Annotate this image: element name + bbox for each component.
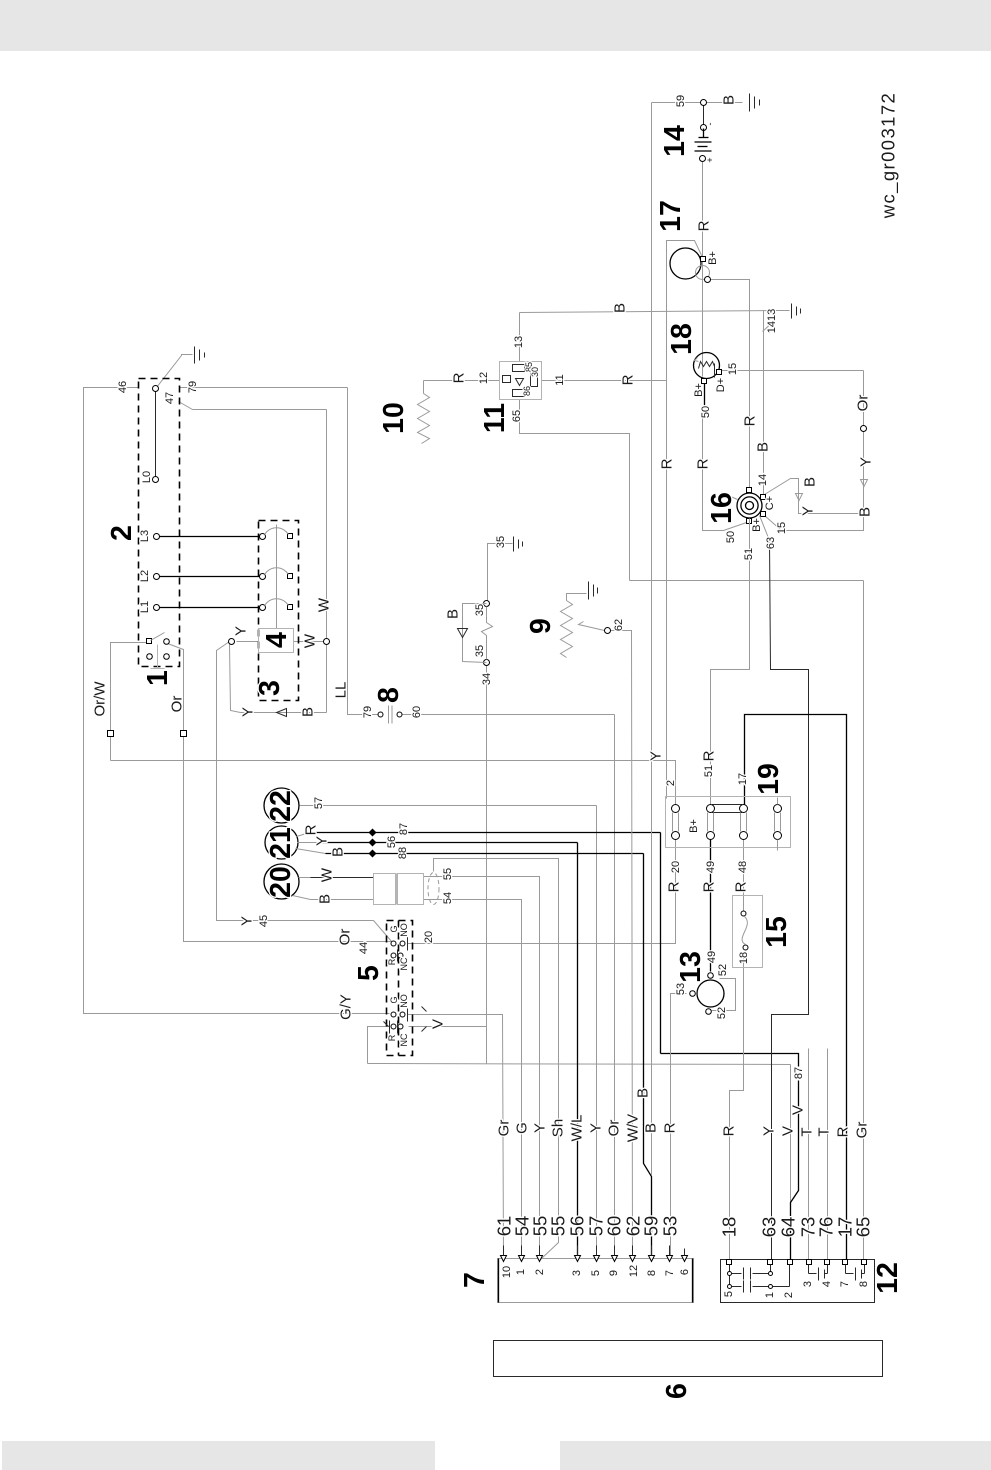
alternator 16 leader 63 [760, 516, 770, 541]
wire B to fuse 20 [311, 899, 374, 901]
wire Y long horizontal to terminal 2 of 19 [111, 761, 676, 805]
glow plug 4 right squares [288, 534, 293, 539]
fuse holder 20 right cell [398, 874, 424, 905]
relay 11 box [500, 362, 542, 400]
svg-text:65: 65 [853, 1217, 874, 1238]
node Y near glow plug 4 [229, 639, 235, 645]
wire 11 from relay to R bus [542, 380, 667, 382]
wire D+/15 of motor 18 [722, 370, 864, 372]
wire column 65/Gr to pin 8 [863, 581, 865, 1261]
wire 79 from switch 2 terminal [180, 387, 348, 389]
wire 62 from resistor 9 [611, 631, 633, 1260]
svg-text:18: 18 [666, 323, 698, 355]
alternator 16 terminal 15 [761, 512, 766, 517]
arrow on 14 wire [796, 494, 803, 501]
wire column 56/WL to pin 3 [577, 843, 579, 1260]
node Or square [181, 731, 187, 737]
svg-text:T: T [799, 1127, 816, 1136]
svg-text:4: 4 [821, 1281, 833, 1287]
motor 18 crank arrow [695, 358, 699, 362]
svg-text:LL: LL [333, 682, 350, 699]
relay 11 left pin bar [503, 376, 511, 383]
svg-text:48: 48 [737, 861, 749, 873]
resistor 9 ground [589, 582, 598, 600]
wire Or from component 1 down [168, 644, 392, 942]
wire switch 2 terminal to ground diagonal [157, 355, 193, 388]
svg-text:3: 3 [254, 680, 286, 696]
svg-text:R: R [701, 750, 718, 761]
wire column 73/T to pin 3 [808, 1049, 810, 1261]
wire 53 from motor 13 [671, 994, 687, 1260]
svg-text:Y: Y [233, 626, 250, 636]
svg-text:NO: NO [399, 994, 409, 1008]
svg-text:8: 8 [646, 1270, 658, 1276]
wire L1 row to glow plug [157, 607, 263, 609]
svg-text:B: B [802, 477, 819, 487]
footer grey bar right [560, 1441, 991, 1470]
svg-text:B: B [643, 1123, 660, 1133]
svg-text:B: B [612, 303, 629, 313]
svg-text:B: B [721, 95, 738, 105]
svg-text:8: 8 [858, 1281, 870, 1287]
svg-text:65: 65 [511, 410, 523, 422]
svg-text:Y: Y [240, 707, 257, 717]
svg-text:3: 3 [571, 1270, 583, 1276]
svg-text:B+: B+ [707, 251, 719, 265]
solenoid 13 terminal 49 [708, 973, 714, 979]
wire B/59 battery negative long bus [651, 103, 653, 1176]
svg-text:Y: Y [761, 1126, 778, 1136]
wire 55 from fuse [424, 877, 540, 1260]
switch 5 contact row NC upper [391, 950, 403, 962]
svg-text:22: 22 [265, 790, 297, 822]
wire 65 horizontal to Gr column [630, 580, 864, 582]
wire 14 from alternator [765, 479, 863, 514]
svg-text:wc_gr003172: wc_gr003172 [878, 92, 900, 219]
svg-text:62: 62 [613, 619, 625, 631]
solenoid 13 terminal 52 bottom [706, 1009, 712, 1015]
wire 47 to W node [193, 409, 327, 411]
diode block right branch resistor squiggle [482, 607, 493, 660]
svg-text:W/L: W/L [569, 1115, 586, 1142]
switch 5 contact row NC lower [390, 1021, 404, 1034]
ground 14/13 stem [781, 310, 790, 312]
alternator 16 inner circle [746, 502, 754, 510]
connector 12 internals pins 7-8 [846, 1265, 865, 1281]
wire bottom horizontal V bus [368, 1064, 791, 1065]
svg-text:R: R [721, 1125, 738, 1136]
wire Y into glow plug rect 4 [237, 641, 259, 643]
switch 2 terminal L0 [153, 477, 159, 483]
svg-text:Or: Or [855, 395, 872, 412]
wire Y/45 diagonal into switch 5 [374, 921, 393, 943]
svg-text:45: 45 [258, 915, 270, 927]
svg-text:B: B [317, 894, 334, 904]
connector 1 coil symbol [151, 645, 165, 669]
svg-text:D+: D+ [715, 378, 727, 392]
switch 2 terminal L2 [154, 574, 160, 580]
svg-text:15: 15 [727, 363, 739, 375]
wire 59 node to ground [652, 102, 743, 104]
svg-text:Sh: Sh [550, 1119, 567, 1137]
svg-text:W: W [302, 633, 319, 648]
wire 87 vertical black [660, 833, 662, 1054]
svg-text:B: B [635, 1088, 652, 1098]
svg-text:53: 53 [660, 1216, 681, 1237]
svg-text:2: 2 [665, 780, 677, 786]
svg-text:6: 6 [679, 1269, 691, 1275]
wire Or/15 vertical right [765, 371, 864, 531]
svg-text:B: B [755, 442, 772, 452]
wire 9 ground stem [567, 594, 587, 601]
solenoid 13 bracket 52 [712, 979, 736, 1011]
svg-text:44: 44 [358, 942, 370, 954]
alternator 16 leader 16 [729, 496, 738, 500]
wire lower NO contact to column Gr/61 [408, 1015, 504, 1260]
connector 8 terminals [378, 712, 383, 717]
wire 14/13 ground diagonal [763, 321, 775, 332]
svg-text:20: 20 [265, 866, 297, 898]
glow plug 4 terminal circles [260, 534, 266, 540]
node on Or wire [861, 426, 867, 432]
wire 47 leader diagonal [179, 402, 193, 410]
svg-text:2: 2 [106, 525, 138, 541]
relay 11 top pin bar [513, 365, 525, 372]
svg-text:55: 55 [442, 868, 454, 880]
svg-text:52: 52 [717, 964, 729, 976]
svg-text:30: 30 [530, 367, 540, 377]
svg-text:Gr: Gr [854, 1122, 871, 1139]
svg-text:59: 59 [675, 95, 687, 107]
svg-text:R: R [742, 415, 759, 426]
motor 18 D+ square [717, 370, 722, 375]
svg-text:86: 86 [522, 386, 532, 396]
svg-text:2: 2 [534, 1269, 546, 1275]
svg-text:1: 1 [142, 670, 174, 686]
switch 2 terminal 46 [153, 386, 159, 392]
svg-text:3: 3 [802, 1281, 814, 1287]
wire Or/W from component 1 [111, 643, 149, 761]
svg-text:50: 50 [725, 531, 737, 543]
glow plug 4 coil arcs [265, 528, 289, 606]
svg-text:1: 1 [515, 1269, 527, 1275]
svg-text:R: R [733, 881, 750, 892]
svg-text:R: R [835, 1126, 852, 1137]
switch 2 terminal L3 [154, 534, 160, 540]
terminal block 19 grey box [666, 797, 791, 848]
svg-text:34: 34 [481, 673, 493, 685]
wire 87/V black down with jog to pin 2 [791, 1081, 799, 1261]
svg-text:B: B [445, 609, 462, 619]
svg-text:20: 20 [670, 861, 682, 873]
wire R/49 from 19 to starter motor 13 [710, 840, 712, 972]
svg-text:R: R [696, 220, 713, 231]
terminal block 19 bus bar [713, 805, 742, 813]
starter 17 B+ square [701, 257, 706, 262]
svg-text:12: 12 [628, 1265, 640, 1277]
svg-text:R: R [387, 1034, 397, 1041]
svg-text:R: R [695, 458, 712, 469]
ground 14/13 [792, 304, 801, 319]
wire R/20 from 19 terminal 1 (label only stub) [675, 840, 677, 848]
relay 11 right pin bar [531, 370, 538, 387]
svg-text:35: 35 [474, 645, 486, 657]
svg-text:B+: B+ [751, 518, 763, 532]
connector 7 pin stubs [504, 1246, 685, 1256]
svg-text:49: 49 [705, 861, 717, 873]
svg-text:10: 10 [378, 402, 410, 434]
svg-text:63: 63 [759, 1217, 780, 1238]
svg-text:Y: Y [858, 457, 875, 467]
svg-text:1: 1 [764, 1292, 776, 1298]
svg-text:35: 35 [495, 536, 507, 548]
svg-text:Gr: Gr [496, 1120, 513, 1137]
wire W to fuse 20 [300, 877, 374, 879]
footer grey bar left [2, 1441, 435, 1470]
svg-text:V: V [430, 1019, 447, 1029]
svg-text:52: 52 [716, 1007, 728, 1019]
svg-text:NO: NO [399, 923, 409, 937]
svg-text:R: R [701, 881, 718, 892]
ground 35 [514, 537, 523, 552]
wire column 57/Y to pin 5 [596, 806, 598, 1260]
wire 65 from relay 11 [520, 400, 630, 581]
motor 18 circle [694, 353, 720, 379]
svg-text:R: R [303, 824, 320, 835]
starter 17 solenoid bump [696, 266, 710, 280]
svg-text:51: 51 [703, 765, 715, 777]
switch 2 dashed box [139, 379, 180, 667]
alternator 16 leader 51 [749, 519, 751, 531]
connector 7 pins [501, 1256, 688, 1262]
svg-text:7: 7 [839, 1281, 851, 1287]
svg-text:11: 11 [479, 403, 511, 433]
svg-text:56: 56 [386, 836, 398, 848]
wire L0 to 46 inside switch 2 [155, 391, 157, 479]
svg-text:47: 47 [164, 392, 176, 404]
svg-text:87: 87 [398, 823, 410, 835]
fuse holder 20 left cell [374, 874, 396, 905]
node 62 [605, 628, 611, 634]
terminal block 19 column 3 [740, 805, 748, 840]
solenoid 13 terminal 53 [690, 991, 696, 997]
wire R/48 from 19 to timer 15 [743, 840, 745, 914]
wire 51 from alternator to 19 [711, 531, 750, 805]
wire 56 from lamp 21 [318, 842, 578, 844]
svg-text:12: 12 [872, 1262, 904, 1294]
svg-text:Y: Y [314, 836, 331, 846]
terminal block 19 column 1 [672, 805, 680, 840]
diode block 34/35 top node [484, 601, 490, 607]
svg-text:9: 9 [608, 1270, 620, 1276]
switch 5 tick marks [384, 1007, 427, 1032]
wire 63 from alternator black path [770, 541, 809, 1261]
wire 50 black segment at B+ of 18 [704, 382, 706, 407]
node Or/W square [108, 731, 114, 737]
starter 17 solenoid node [705, 277, 711, 283]
wire 50 down to alternator [703, 407, 750, 531]
motor 18 internal resistor [699, 362, 715, 369]
svg-text:V: V [790, 1105, 807, 1115]
wire column 88/B jog to pin 8 [644, 854, 652, 1260]
svg-text:8: 8 [373, 687, 405, 703]
svg-text:50: 50 [700, 406, 712, 418]
switch 2 terminal L1 [154, 605, 160, 611]
wire G/Y left vertical bus [84, 389, 390, 1014]
svg-text:Y: Y [588, 1123, 605, 1133]
wire V from switch 5 [409, 1026, 487, 1028]
wire diode 3 row [241, 712, 327, 714]
svg-text:C+: C+ [764, 496, 776, 510]
svg-text:W: W [316, 597, 333, 612]
svg-text:L2: L2 [139, 570, 151, 582]
svg-text:W/V: W/V [625, 1114, 642, 1142]
wire switch 5 left return [368, 1027, 390, 1064]
svg-text:5: 5 [590, 1270, 602, 1276]
wire 20 from switch 5 to 19 [408, 848, 676, 944]
seat switch 5 dashed box [387, 921, 413, 1056]
svg-text:18: 18 [719, 1217, 740, 1238]
alternator 16 outer circle [737, 493, 762, 518]
wire resistor 10 stem [423, 381, 425, 394]
svg-text:2: 2 [783, 1292, 795, 1298]
svg-text:59: 59 [641, 1216, 662, 1237]
svg-text:R: R [666, 881, 683, 892]
wire L2 row to glow plug [157, 576, 263, 578]
lamp 21 circle [265, 826, 298, 859]
svg-text:21: 21 [265, 827, 297, 859]
diode block left branch [463, 604, 487, 663]
glow plug 4 label rect [259, 629, 294, 653]
svg-text:W: W [319, 867, 336, 882]
wire L3 row to glow plug [157, 536, 263, 538]
lamp 21 leaders [296, 833, 326, 854]
svg-text:55: 55 [548, 1216, 569, 1237]
wire column 76/T to pin 4 [827, 1049, 829, 1261]
svg-text:R: R [387, 958, 397, 965]
svg-text:15: 15 [761, 916, 793, 948]
connector 12 internals pins 3-4 [809, 1265, 828, 1281]
svg-text:60: 60 [604, 1216, 625, 1237]
glow timer 15 box [733, 896, 763, 968]
wire R from resistor 10 to relay 12 [424, 380, 500, 382]
resistor 9 zigzag [561, 601, 573, 658]
wire 87 horizontal to V column [661, 1054, 799, 1067]
svg-text:60: 60 [411, 706, 423, 718]
lamp 20 circle [264, 864, 299, 899]
glow timer 15 terminals and curve [741, 911, 748, 950]
connector 1 contact squares [147, 639, 152, 644]
battery 14 ground [750, 94, 760, 112]
wire 88 from lamp 21 [326, 853, 644, 855]
wire Sh shield drain [434, 859, 559, 1260]
connector 1 switch arm [151, 633, 165, 641]
svg-text:49: 49 [706, 951, 718, 963]
battery 14 node 59 [701, 100, 707, 106]
motor 18 D+ tick [714, 364, 716, 378]
resistor 9 wiper arrow [579, 622, 605, 631]
svg-text:17: 17 [655, 200, 687, 232]
terminal block 19 column 4 [774, 798, 782, 851]
motor 18 B+ square [702, 379, 707, 384]
svg-text:Or/W: Or/W [92, 681, 109, 717]
wire Y node stub down to diode 3 [230, 645, 241, 713]
wire 54 from fuse [424, 900, 522, 1260]
svg-text:B: B [300, 707, 317, 717]
svg-text:14: 14 [659, 125, 691, 157]
svg-text:88: 88 [397, 847, 409, 859]
wire 18 from timer 15 to pin 5 [730, 953, 744, 1261]
svg-text:L0: L0 [141, 471, 153, 483]
fuse holder divider [396, 874, 398, 905]
svg-text:6: 6 [661, 1383, 693, 1399]
svg-text:V: V [780, 1126, 797, 1136]
alternator 16 middle circle [741, 497, 758, 514]
svg-text:Or: Or [169, 696, 186, 713]
wire battery minus link [703, 103, 705, 126]
fuel solenoid 13 circle [697, 980, 724, 1007]
svg-text:13: 13 [513, 336, 525, 348]
svg-text:T: T [816, 1127, 833, 1136]
wire ground 35 stem [488, 544, 513, 604]
svg-text:7: 7 [664, 1270, 676, 1276]
svg-text:B: B [330, 847, 347, 857]
svg-text:79: 79 [362, 706, 374, 718]
svg-text:13: 13 [675, 951, 707, 983]
svg-text:+: + [705, 157, 715, 162]
svg-text:12: 12 [478, 372, 490, 384]
lamp 22 circle [264, 788, 299, 823]
relay 11 coil diode [516, 379, 524, 386]
svg-text:Or: Or [337, 929, 354, 946]
alternator 16 bottom terminal B+ [747, 519, 752, 524]
svg-text:18: 18 [738, 952, 750, 964]
wire R bus from starter B+ [667, 241, 704, 799]
lamp 22 leader [300, 805, 310, 807]
svg-text:19: 19 [753, 763, 785, 795]
starter 17 circle [670, 248, 701, 279]
ground near switch 2 [195, 347, 205, 364]
svg-text:9: 9 [525, 618, 557, 634]
relay 11 bottom pin bar [513, 390, 525, 397]
svg-text:10: 10 [501, 1266, 513, 1278]
wire 60 from connector 8 to column [403, 714, 615, 716]
lamp 20 leaders [293, 878, 311, 900]
connector 7 box [498, 1259, 694, 1303]
svg-text:63: 63 [765, 537, 777, 549]
svg-text:16: 16 [706, 492, 738, 524]
svg-text:54: 54 [442, 892, 454, 904]
diode block 34/35 bottom node [484, 660, 490, 666]
wire Y/45 vertical [217, 642, 374, 921]
svg-text:B+: B+ [688, 819, 700, 833]
switch 5 contact row NO lower [391, 1009, 408, 1022]
svg-text:17: 17 [737, 773, 749, 785]
junction diamonds on wires 87 56 88 [369, 829, 377, 858]
svg-text:Or: Or [606, 1120, 623, 1137]
battery 14 plus terminal [700, 156, 706, 162]
svg-text:Y: Y [239, 916, 256, 926]
svg-text:56: 56 [567, 1216, 588, 1237]
shield ellipse dashed [428, 873, 439, 905]
connector 12 pins [727, 1260, 867, 1265]
svg-text:87: 87 [793, 1067, 805, 1079]
wire battery plus to R [702, 159, 704, 377]
svg-text:R: R [659, 458, 676, 469]
svg-text:NC: NC [399, 1033, 409, 1046]
svg-text:-: - [705, 123, 715, 126]
svg-text:14: 14 [757, 474, 769, 486]
